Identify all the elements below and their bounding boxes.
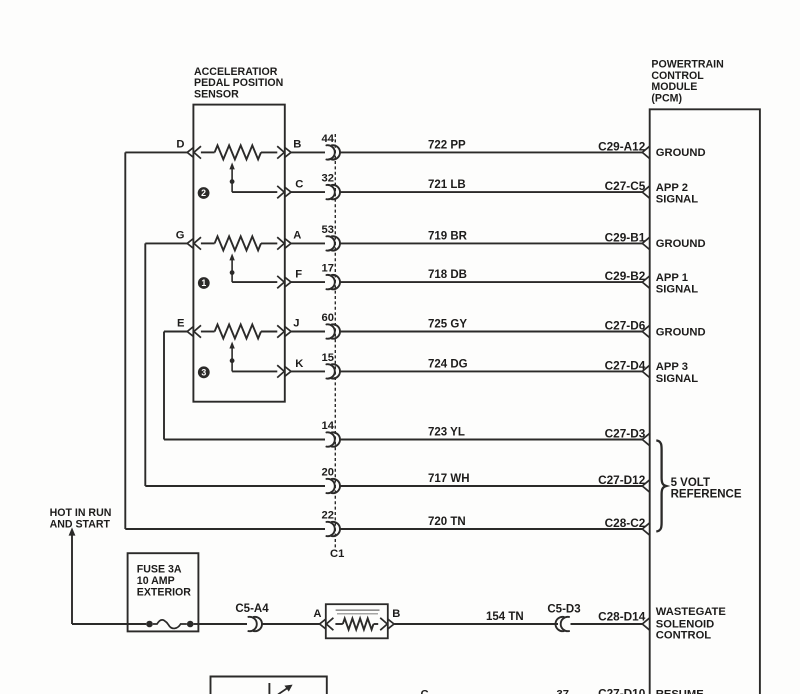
svg-text:20: 20 xyxy=(322,467,334,479)
wire 154 TN solenoid B to connector C5-D3 xyxy=(394,623,558,625)
svg-text:ACCELERATIOR: ACCELERATIOR xyxy=(194,66,278,78)
svg-text:C27-C5: C27-C5 xyxy=(605,179,646,193)
5 volt reference label xyxy=(671,477,742,501)
connector C1 pin 14 xyxy=(322,420,340,447)
PCM pin C29-A12 xyxy=(598,139,650,158)
svg-text:C29-B1: C29-B1 xyxy=(605,230,646,244)
potentiometer 3 (APP 3) wiper xyxy=(229,342,277,372)
sensor header label xyxy=(194,66,283,101)
svg-text:D: D xyxy=(176,138,184,150)
svg-text:C27-D10: C27-D10 xyxy=(598,686,646,694)
potentiometer 1 (APP 1) resistor xyxy=(201,236,277,250)
svg-text:A: A xyxy=(313,608,321,620)
svg-text:C1: C1 xyxy=(330,548,344,560)
wire 721 LB (row2) xyxy=(291,191,643,193)
svg-text:10 AMP: 10 AMP xyxy=(137,575,175,587)
sensor pin J terminal xyxy=(277,318,299,338)
svg-text:C29-B2: C29-B2 xyxy=(605,269,646,283)
connector C1 pin 22 xyxy=(322,510,340,537)
svg-text:1: 1 xyxy=(201,278,206,288)
potentiometer 1 (APP 1) wiper xyxy=(229,253,277,282)
svg-text:60: 60 xyxy=(322,312,334,324)
sensor pin A terminal xyxy=(277,229,301,249)
svg-text:B: B xyxy=(293,138,301,150)
svg-text:721 LB: 721 LB xyxy=(428,179,466,191)
svg-text:CONTROL: CONTROL xyxy=(656,630,711,642)
circled number 2 xyxy=(198,187,210,199)
PCM pin C28-D14 xyxy=(598,609,650,630)
svg-text:720 TN: 720 TN xyxy=(428,516,466,528)
wastegate solenoid control label xyxy=(656,606,727,642)
svg-text:WASTEGATE: WASTEGATE xyxy=(656,606,727,618)
powertrain control module (PCM) box xyxy=(650,109,760,694)
potentiometer 3 (APP 3) resistor xyxy=(201,325,277,339)
fuse element xyxy=(128,620,199,629)
svg-text:SOLENOID: SOLENOID xyxy=(656,618,714,630)
potentiometer 2 (APP 2) wiper xyxy=(229,162,277,192)
connector C1 pin 15 xyxy=(322,352,340,379)
circled number 1 xyxy=(198,277,210,289)
hot in run and start label xyxy=(50,507,112,531)
PCM pin C29-B2 xyxy=(605,269,650,288)
svg-text:FUSE 3A: FUSE 3A xyxy=(137,564,182,576)
svg-text:K: K xyxy=(295,358,303,370)
svg-text:53: 53 xyxy=(322,224,334,236)
sensor pin B terminal xyxy=(277,138,301,158)
PCM pin C27-D4 xyxy=(605,358,650,377)
svg-text:(PCM): (PCM) xyxy=(651,93,682,105)
svg-text:HOT IN RUN: HOT IN RUN xyxy=(50,507,112,519)
svg-text:725 GY: 725 GY xyxy=(428,319,467,331)
PCM pin C27-D6 xyxy=(605,319,650,338)
svg-text:POWERTRAIN: POWERTRAIN xyxy=(651,58,723,70)
wire 725 GY (row5) xyxy=(291,331,643,333)
svg-text:AND START: AND START xyxy=(50,518,111,530)
connector C1 pin 53 xyxy=(322,224,340,251)
svg-text:APP 1: APP 1 xyxy=(656,272,688,284)
power feed arrow xyxy=(69,527,128,624)
wire 719 BR (row3) xyxy=(291,242,643,244)
circled number 3 xyxy=(198,366,210,378)
solenoid coil resistance xyxy=(335,618,378,629)
svg-text:RESUME: RESUME xyxy=(656,688,704,694)
svg-text:F: F xyxy=(295,269,302,281)
sensor pin C terminal xyxy=(277,179,303,199)
wastegate solenoid box xyxy=(326,604,388,638)
svg-text:5 VOLT: 5 VOLT xyxy=(671,477,710,489)
svg-text:C29-A12: C29-A12 xyxy=(598,139,646,153)
svg-text:2: 2 xyxy=(201,188,206,198)
sensor pin D terminal xyxy=(176,138,201,158)
wire 722 PP (row1) xyxy=(291,151,643,153)
svg-text:724 DG: 724 DG xyxy=(428,358,468,370)
svg-text:APP 2: APP 2 xyxy=(656,182,688,194)
svg-text:SIGNAL: SIGNAL xyxy=(656,284,698,296)
svg-text:C5-A4: C5-A4 xyxy=(235,603,269,615)
svg-text:C: C xyxy=(295,179,303,191)
svg-text:PEDAL POSITION: PEDAL POSITION xyxy=(194,77,283,89)
accelerator pedal position sensor box xyxy=(193,105,284,402)
svg-text:B: B xyxy=(392,608,400,620)
connector C1 pin 17 xyxy=(322,263,340,290)
svg-text:J: J xyxy=(293,318,299,330)
svg-text:G: G xyxy=(176,229,185,241)
app 2 signal label xyxy=(656,182,698,206)
wire 723 YL (row7) xyxy=(291,439,643,441)
cruise servo box (cut off) xyxy=(211,677,327,694)
sensor pin K terminal xyxy=(277,358,303,378)
wire C5-D3 to PCM C28-D14 xyxy=(571,623,643,625)
solenoid pin A terminal xyxy=(313,608,333,630)
wire: sensor pin E to row7 (723 YL) xyxy=(164,332,325,440)
fuse label xyxy=(137,564,192,599)
connector C5-D3 xyxy=(547,603,580,631)
PCM header label xyxy=(651,58,723,104)
svg-text:C27-D4: C27-D4 xyxy=(605,358,646,372)
connector C1 pin 20 xyxy=(322,467,340,494)
svg-text:44: 44 xyxy=(322,133,335,145)
svg-text:722 PP: 722 PP xyxy=(428,139,466,151)
app 1 signal label xyxy=(656,272,698,296)
wire 720 TN (row9) xyxy=(291,528,643,530)
svg-text:15: 15 xyxy=(322,352,334,364)
svg-text:37: 37 xyxy=(557,688,569,694)
svg-text:17: 17 xyxy=(322,263,334,275)
svg-text:717 WH: 717 WH xyxy=(428,473,470,485)
sensor pin F terminal xyxy=(277,269,302,289)
app 3 signal label xyxy=(656,361,698,385)
cruise servo symbol (partial) xyxy=(269,683,292,694)
sensor pin G terminal xyxy=(176,229,201,249)
svg-text:C5-D3: C5-D3 xyxy=(547,603,580,615)
solenoid pin B terminal xyxy=(380,608,400,630)
svg-text:154 TN: 154 TN xyxy=(486,611,524,623)
svg-text:E: E xyxy=(177,318,185,330)
svg-text:SIGNAL: SIGNAL xyxy=(656,194,698,206)
PCM pin C29-B1 xyxy=(605,230,650,249)
wire 724 DG (row6) xyxy=(291,370,643,372)
svg-text:SENSOR: SENSOR xyxy=(194,89,239,101)
connector C1 pin 44 xyxy=(322,133,340,160)
svg-text:C27-D12: C27-D12 xyxy=(598,473,646,487)
PCM pin C27-C5 xyxy=(605,179,650,198)
svg-text:REFERENCE: REFERENCE xyxy=(671,489,742,501)
wire C5-A4 to wastegate solenoid pin A xyxy=(262,623,320,625)
PCM pin C28-C2 xyxy=(605,516,650,535)
svg-text:CONTROL: CONTROL xyxy=(651,70,704,82)
fuse 3A 10 amp exterior box xyxy=(128,553,199,631)
svg-text:C28-C2: C28-C2 xyxy=(605,516,646,530)
solenoid core lines xyxy=(336,609,380,611)
connector C1 dashed line xyxy=(334,134,336,549)
wire 718 DB (row4) xyxy=(291,281,643,283)
svg-text:SIGNAL: SIGNAL xyxy=(656,373,698,385)
svg-text:A: A xyxy=(293,229,301,241)
svg-text:APP 3: APP 3 xyxy=(656,361,688,373)
svg-text:32: 32 xyxy=(322,173,334,185)
connector C5-A4 xyxy=(235,603,269,631)
svg-text:C27-D6: C27-D6 xyxy=(605,319,646,333)
svg-text:14: 14 xyxy=(322,420,335,432)
svg-text:3: 3 xyxy=(201,367,206,377)
svg-text:GROUND: GROUND xyxy=(656,147,706,159)
5 volt reference brace xyxy=(656,440,666,531)
svg-text:GROUND: GROUND xyxy=(656,326,706,338)
connector C1 pin 32 xyxy=(322,173,340,200)
svg-text:723 YL: 723 YL xyxy=(428,427,465,439)
svg-text:718 DB: 718 DB xyxy=(428,269,467,281)
wire 717 WH (row8) xyxy=(291,485,643,487)
wire fuse to connector C5-A4 xyxy=(198,623,247,625)
potentiometer 2 (APP 2) resistor xyxy=(201,145,277,159)
PCM pin C27-D3 xyxy=(605,427,650,446)
svg-text:22: 22 xyxy=(322,510,334,522)
svg-text:C: C xyxy=(421,688,429,694)
connector C1 pin 60 xyxy=(322,312,340,339)
wire: sensor pin G to row8 (717 WH) xyxy=(145,243,325,486)
svg-text:C28-D14: C28-D14 xyxy=(598,609,646,623)
svg-text:EXTERIOR: EXTERIOR xyxy=(137,586,192,598)
wire: sensor pin D to row9 (720 TN) xyxy=(125,152,325,529)
svg-text:719 BR: 719 BR xyxy=(428,230,468,242)
svg-text:C27-D3: C27-D3 xyxy=(605,427,646,441)
PCM pin C27-D12 xyxy=(598,473,650,492)
sensor pin E terminal xyxy=(177,318,201,338)
svg-text:MODULE: MODULE xyxy=(651,81,697,93)
svg-text:GROUND: GROUND xyxy=(656,238,706,250)
